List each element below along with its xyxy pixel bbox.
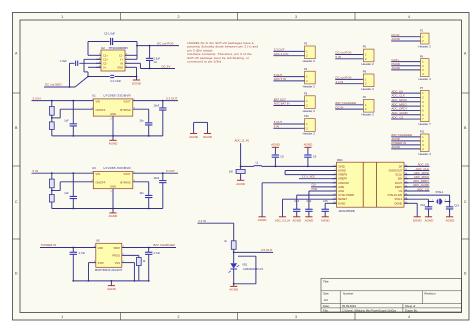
svg-text:MCP73831T-2ACI/OT: MCP73831T-2ACI/OT: [95, 268, 123, 272]
svg-text:C2+: C2+: [103, 57, 108, 61]
svg-text:BYPASS: BYPASS: [120, 181, 130, 185]
wire STAT: [88, 263, 96, 282]
ground AGND charger: [107, 281, 117, 291]
svg-text:LP2985-50DBVR: LP2985-50DBVR: [104, 166, 132, 170]
ground AGND filter: [236, 180, 246, 186]
wire C1 to NEG rail: [69, 63, 71, 88]
svg-text:C4 1.5uF: C4 1.5uF: [110, 79, 121, 83]
svg-text:P8: P8: [363, 70, 367, 74]
svg-text:DC out POS: DC out POS: [157, 41, 174, 45]
svg-text:1: 1: [61, 15, 63, 19]
ground DGND tie: [203, 134, 213, 139]
wire AGND-DGND bridge: [194, 122, 208, 133]
svg-text:VOUT: VOUT: [123, 99, 131, 103]
svg-text:C:\Users\..\Wattuino Mini Powe: C:\Users\..\Wattuino Mini PowerSupply.Sc…: [342, 308, 397, 312]
wire ON/OFF of U3: [52, 182, 94, 191]
node 3.3 IN: [32, 96, 94, 101]
svg-text:C2: C2: [154, 60, 158, 64]
svg-text:7: 7: [126, 58, 127, 60]
svg-text:Header 2: Header 2: [361, 87, 374, 91]
svg-text:Header 4: Header 4: [419, 77, 432, 81]
capacitor C17: [446, 202, 460, 223]
svg-text:5 IN: 5 IN: [33, 169, 39, 173]
wire top loop left: [88, 42, 96, 56]
connector P4 Header 2: [273, 67, 315, 89]
svg-text:RESET: RESET: [338, 197, 347, 201]
svg-text:CS: CS: [399, 189, 403, 193]
wire ground rail of U1: [52, 135, 163, 137]
svg-text:XTAL1: XTAL1: [435, 190, 444, 194]
svg-text:AGND: AGND: [392, 145, 400, 149]
svg-text:D: D: [464, 272, 467, 276]
svg-text:AGND: AGND: [189, 135, 199, 139]
svg-text:AGND: AGND: [392, 66, 400, 70]
svg-text:3.3 IN: 3.3 IN: [33, 96, 41, 100]
svg-text:AGND: AGND: [109, 214, 119, 218]
node DC 5V: [130, 63, 175, 69]
title block: [321, 278, 462, 312]
svg-text:SYNC PDWN: SYNC PDWN: [338, 193, 354, 197]
svg-text:3: 3: [295, 15, 297, 19]
svg-text:P1: P1: [420, 29, 424, 33]
svg-text:5: 5: [126, 66, 127, 68]
svg-text:C15: C15: [323, 199, 328, 203]
regulator U3 LP2985-50DBVR: [91, 166, 134, 193]
node DC out POS: [137, 41, 179, 46]
svg-text:GND: GND: [117, 65, 123, 69]
svg-text:LP2985-33DBVR: LP2985-33DBVR: [104, 94, 132, 98]
svg-text:AGND: AGND: [292, 218, 302, 222]
svg-text:VDD: VDD: [98, 246, 104, 250]
svg-text:TPS60400DBV: TPS60400DBV: [109, 46, 129, 50]
svg-text:C: C: [464, 200, 467, 204]
ground DGND of DD1: [404, 203, 422, 222]
connector P6 Header 2: [273, 91, 315, 113]
svg-text:Y+: Y+: [120, 57, 124, 61]
svg-text:1.5uF: 1.5uF: [60, 59, 67, 63]
svg-text:DRDY: DRDY: [395, 185, 403, 189]
capacitor C13 row8: [292, 195, 336, 222]
svg-text:Drawn By:: Drawn By:: [405, 308, 418, 312]
svg-text:2.5 OUT: 2.5 OUT: [261, 248, 273, 252]
resistor R upper of U3: [49, 173, 54, 191]
svg-text:3.3 IN: 3.3 IN: [336, 80, 344, 84]
svg-text:ADC 3.3 IN: ADC 3.3 IN: [274, 52, 289, 56]
ground AGND of U1: [109, 116, 119, 146]
svg-text:PDW: PDW: [312, 188, 318, 191]
connector P9 Header 4: [391, 54, 431, 81]
svg-text:P3: P3: [304, 42, 308, 46]
node 3.3_V_ADC row4: [299, 175, 337, 179]
svg-text:2: 2: [178, 15, 180, 19]
svg-text:P6: P6: [304, 91, 308, 95]
capacitor C5: [88, 32, 137, 46]
ground AGND of U3: [109, 189, 119, 219]
svg-text:10n: 10n: [139, 119, 144, 123]
svg-text:File:: File:: [323, 308, 329, 312]
svg-text:Header 2: Header 2: [303, 109, 316, 113]
svg-text:3.3 OUT: 3.3 OUT: [166, 96, 178, 100]
svg-text:C2-: C2-: [103, 61, 107, 65]
svg-text:VIN: VIN: [96, 172, 100, 176]
svg-text:C1-: C1-: [119, 53, 123, 57]
svg-text:4: 4: [408, 15, 410, 19]
op-amp U2 charge pump TPS60400: [96, 46, 130, 71]
svg-text:DC out NEG: DC out NEG: [45, 83, 62, 87]
svg-text:DVDD/OUT: DVDD/OUT: [389, 169, 403, 173]
svg-text:AGND: AGND: [271, 143, 281, 147]
charger U5 MCP73831: [94, 239, 124, 272]
resistor R upper of U1: [49, 101, 54, 119]
svg-text:8: 8: [126, 54, 127, 56]
svg-text:6: 6: [126, 62, 127, 64]
capacitor 4.7uF output: [145, 248, 160, 282]
svg-text:VD1: VD1: [242, 263, 248, 267]
svg-text:ADC_5_IN: ADC_5_IN: [234, 139, 248, 143]
svg-text:P9: P9: [420, 54, 424, 58]
wire V+ down: [87, 67, 101, 77]
svg-text:09.09.2016: 09.09.2016: [342, 304, 356, 308]
svg-text:C14: C14: [454, 204, 459, 208]
svg-text:P2: P2: [363, 95, 367, 99]
capacitor C8: [271, 143, 284, 167]
ground AGND tie: [189, 134, 199, 139]
connector P1 Header 2: [391, 29, 431, 49]
svg-text:AGND: AGND: [392, 37, 400, 41]
svg-text:LM4040AIM3-2.5: LM4040AIM3-2.5: [243, 267, 263, 271]
svg-text:4: 4: [408, 315, 410, 319]
svg-text:3.3_V_ADC: 3.3_V_ADC: [302, 175, 316, 179]
svg-text:4.7uF: 4.7uF: [153, 251, 160, 255]
connector P5 Header 2: [335, 45, 374, 66]
wire VSS: [122, 263, 136, 282]
svg-text:Header 2: Header 2: [303, 132, 316, 136]
svg-text:C5 1.5uF: C5 1.5uF: [104, 32, 115, 36]
svg-text:DGND: DGND: [203, 135, 213, 139]
svg-text:VIN: VIN: [96, 99, 100, 103]
wire top loop right: [130, 42, 138, 60]
svg-text:VSS: VSS: [115, 261, 120, 265]
svg-text:3.3 IN: 3.3 IN: [198, 219, 206, 223]
svg-text:10uF: 10uF: [153, 103, 159, 107]
svg-text:AGND: AGND: [338, 169, 346, 173]
capacitor 4.7uF input: [70, 248, 86, 282]
svg-text:GND: GND: [110, 112, 116, 116]
node 3.3 IN reference: [198, 219, 234, 241]
svg-text:connected to pin 2/3rd: connected to pin 2/3rd: [187, 60, 221, 64]
svg-text:5 IN: 5 IN: [274, 125, 279, 129]
svg-text:1uF: 1uF: [64, 119, 69, 123]
DD1 right side net labels: [404, 163, 430, 192]
wire ON/OFF of U1: [52, 109, 94, 118]
svg-text:DC IN: DC IN: [336, 105, 344, 109]
svg-text:P7: P7: [420, 86, 424, 90]
connector P8 Header 2: [335, 70, 374, 92]
note text block: [187, 41, 258, 64]
svg-text:5 IN: 5 IN: [336, 55, 341, 59]
capacitor C15 row10: [321, 199, 337, 222]
diode VD1 LM4040: [228, 252, 263, 285]
capacitor bypass 10n of U1: [133, 109, 153, 136]
svg-text:Header 2: Header 2: [361, 62, 374, 66]
svg-text:Header 4: Header 4: [419, 152, 432, 156]
svg-text:AIN0: AIN0: [338, 185, 344, 189]
capacitor 1uF of U3: [64, 173, 77, 209]
svg-text:C8: C8: [280, 155, 284, 159]
svg-text:IN: IN: [120, 61, 123, 65]
capacitor output 10uF of U3: [153, 173, 166, 208]
svg-text:ADC_CS: ADC_CS: [417, 187, 429, 191]
svg-text:1: 1: [99, 54, 100, 56]
svg-text:DGND: DGND: [395, 201, 403, 205]
resistor R lower of U1: [49, 118, 54, 136]
capacitor 1uF of U1: [64, 101, 77, 137]
svg-text:POWER IN: POWER IN: [41, 243, 56, 247]
svg-text:ADC_3.3_IN: ADC_3.3_IN: [275, 218, 290, 222]
node BAT CHARGER: [122, 243, 176, 249]
IC DD1 ADS1255: [332, 158, 408, 213]
svg-text:DGND: DGND: [413, 218, 423, 222]
svg-text:DD1: DD1: [337, 158, 343, 162]
svg-text:1: 1: [61, 315, 63, 319]
wire charger ground rail: [73, 280, 148, 282]
svg-text:P10: P10: [304, 114, 309, 118]
connector P7 Header 7: [391, 86, 431, 126]
svg-text:DIN: DIN: [398, 177, 403, 181]
svg-text:Revision: Revision: [424, 292, 435, 296]
svg-text:ON/OFF: ON/OFF: [96, 181, 106, 185]
svg-text:3V3D: 3V3D: [338, 164, 345, 168]
regulator U1 LP2985-33DBVR: [91, 94, 134, 121]
crystal XTAL1: [404, 190, 451, 205]
svg-text:Number: Number: [343, 292, 353, 296]
svg-text:AGND: AGND: [321, 218, 331, 222]
inductor L1: [241, 160, 337, 167]
svg-text:Size: Size: [323, 292, 329, 296]
node CLK row6: [311, 184, 337, 191]
svg-text:AGND: AGND: [109, 142, 119, 146]
svg-text:AGND: AGND: [229, 288, 239, 292]
svg-text:Header 2: Header 2: [361, 113, 374, 117]
node 3.3 OUT: [133, 96, 178, 101]
svg-text:VOUT: VOUT: [123, 172, 131, 176]
wire C2+ loop: [84, 59, 101, 76]
svg-text:BAT CHARGER: BAT CHARGER: [153, 243, 175, 247]
resistor 1k: [224, 240, 236, 253]
svg-text:STAT: STAT: [98, 261, 105, 265]
svg-text:U5: U5: [96, 239, 100, 243]
svg-text:U1: U1: [92, 94, 96, 98]
svg-text:ON/OFF: ON/OFF: [96, 108, 106, 112]
svg-text:D: D: [15, 272, 18, 276]
svg-text:PROG: PROG: [112, 253, 120, 257]
svg-text:Header 2: Header 2: [303, 59, 316, 63]
capacitor output 10uF of U1: [153, 101, 166, 136]
wire AGND pin row2: [285, 171, 336, 175]
svg-text:C1+: C1+: [103, 53, 108, 57]
svg-text:5 OUT: 5 OUT: [166, 169, 175, 173]
capacitor C2: [146, 46, 161, 69]
connector P10 Header 2: [273, 114, 315, 136]
connector P3 Header 2: [273, 42, 315, 64]
resistor PROG 2k: [122, 255, 146, 281]
wire pin3 loop: [234, 256, 256, 284]
node ADC_5_IN: [234, 139, 248, 168]
svg-text:P11: P11: [420, 130, 425, 134]
svg-text:AINCOM: AINCOM: [338, 181, 348, 185]
svg-text:AIN1: AIN1: [338, 189, 344, 193]
svg-text:XTAL2: XTAL2: [394, 197, 402, 201]
svg-text:3: 3: [295, 315, 297, 319]
svg-text:AGND: AGND: [107, 287, 117, 291]
capacitor C9: [304, 143, 317, 167]
svg-text:Header 2: Header 2: [419, 44, 432, 48]
svg-text:VREFP: VREFP: [338, 177, 347, 181]
capacitor C16: [420, 202, 434, 223]
svg-text:P5: P5: [363, 45, 367, 49]
svg-text:GND: GND: [110, 185, 116, 189]
svg-text:U2: U2: [101, 46, 105, 50]
node DC out NEG: [44, 77, 88, 88]
connector P11 Header 4: [391, 130, 431, 156]
capacitor C4: [88, 75, 137, 83]
svg-text:4.7uF: 4.7uF: [79, 251, 86, 255]
node ADC_3.3_IN row9: [275, 199, 337, 222]
node 5 OUT: [133, 169, 178, 174]
ground AGND reference: [229, 285, 239, 292]
svg-text:A4: A4: [324, 298, 328, 302]
svg-text:DOUT: DOUT: [395, 181, 403, 185]
svg-text:AGND: AGND: [305, 218, 315, 222]
svg-text:AGND: AGND: [425, 218, 435, 222]
node 2.5 OUT: [234, 248, 273, 252]
resistor R lower of U3: [49, 191, 54, 209]
capacitor bypass 10n of U3: [133, 182, 153, 209]
wire AINCOM row5 to AGND: [258, 183, 337, 222]
svg-text:Header 2: Header 2: [303, 84, 316, 88]
svg-text:2: 2: [178, 315, 180, 319]
wire ground rail of U3: [52, 208, 163, 210]
svg-text:AGND: AGND: [236, 182, 246, 186]
svg-text:10uF: 10uF: [153, 176, 159, 180]
svg-text:ADC_CS: ADC_CS: [392, 115, 404, 119]
svg-text:2: 2: [111, 191, 112, 193]
svg-text:P4: P4: [304, 67, 308, 71]
svg-text:DF: DF: [399, 164, 403, 168]
svg-text:2: 2: [111, 119, 112, 121]
ground DGND of charge pump: [130, 67, 142, 85]
node 5 IN: [32, 169, 94, 174]
capacitor C14 row7: [305, 191, 337, 222]
svg-text:ADS1255IDB: ADS1255IDB: [339, 209, 355, 213]
resistor 100: [229, 166, 245, 180]
svg-text:VREFN: VREFN: [338, 173, 347, 177]
svg-text:C16: C16: [420, 203, 425, 207]
svg-text:1.5uF: 1.5uF: [154, 56, 161, 60]
svg-text:ADC 5 IN: ADC 5 IN: [274, 77, 286, 81]
svg-text:10n: 10n: [139, 191, 144, 195]
svg-text:C: C: [15, 200, 18, 204]
svg-text:U3: U3: [92, 166, 96, 170]
svg-text:AGND: AGND: [446, 218, 456, 222]
svg-text:AGND: AGND: [304, 143, 314, 147]
svg-text:DC 5V: DC 5V: [162, 64, 171, 68]
svg-text:100: 100: [229, 171, 234, 174]
svg-text:VBAT: VBAT: [113, 246, 120, 250]
svg-text:DV3D: DV3D: [338, 201, 345, 205]
svg-text:DGND: DGND: [132, 81, 142, 85]
svg-text:ADC BAT IN: ADC BAT IN: [274, 102, 290, 106]
svg-text:Header 7: Header 7: [419, 122, 432, 126]
svg-text:AGND: AGND: [258, 218, 268, 222]
svg-text:C9: C9: [313, 155, 317, 159]
svg-text:CLK: CLK: [312, 184, 317, 187]
capacitor C1: [60, 59, 101, 66]
svg-text:V+: V+: [103, 65, 107, 69]
svg-text:1: 1: [335, 165, 336, 167]
svg-text:SCLK: SCLK: [395, 173, 402, 177]
node POWER IN: [40, 243, 96, 249]
svg-text:1uF: 1uF: [64, 191, 69, 195]
connector P2 Header 2: [335, 95, 374, 117]
svg-text:BYPASS: BYPASS: [120, 108, 130, 112]
svg-text:XTAL/CLKIN: XTAL/CLKIN: [388, 193, 403, 197]
svg-text:Title: Title: [323, 280, 329, 284]
